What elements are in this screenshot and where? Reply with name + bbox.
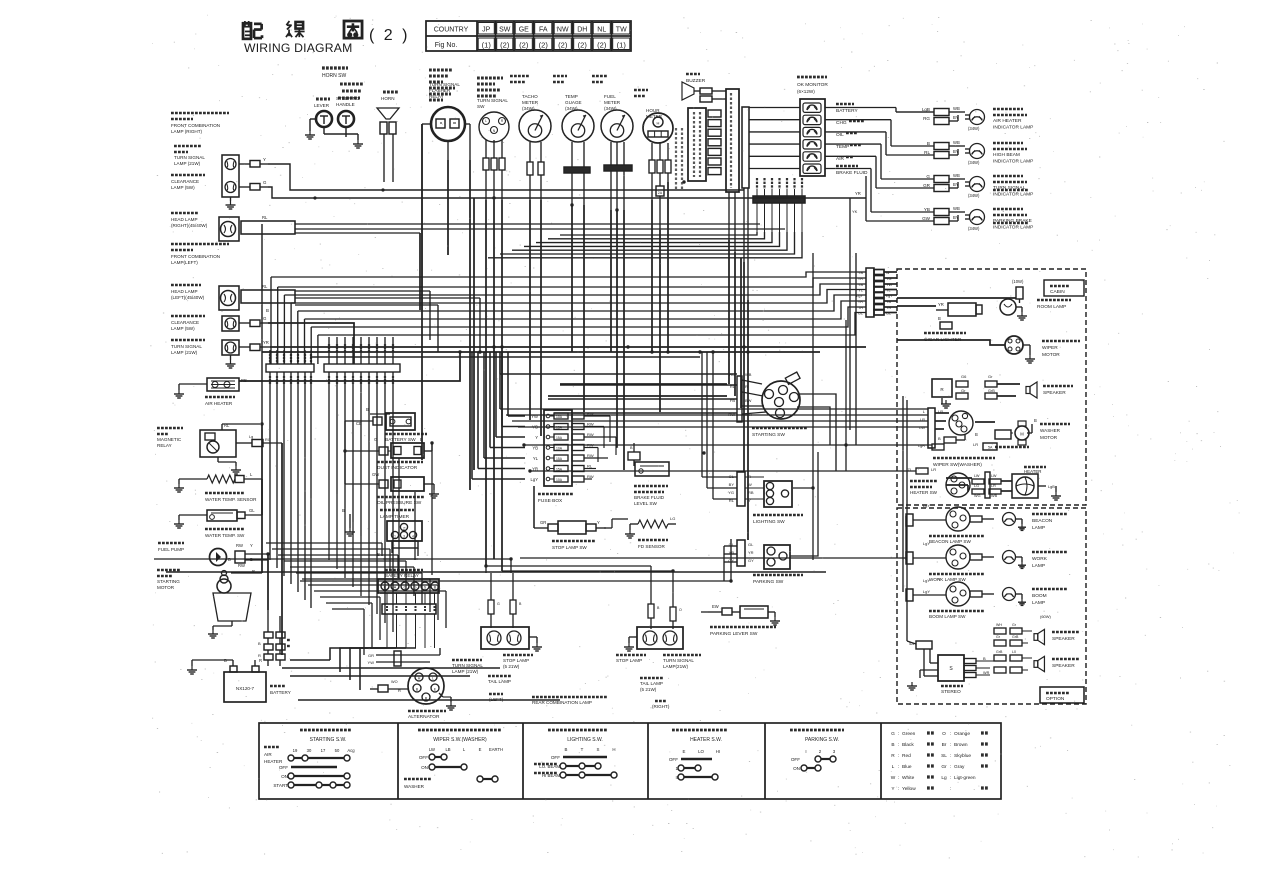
svg-text:HIGH BEAM: HIGH BEAM [993, 152, 1020, 158]
svg-text:O: O [942, 731, 946, 737]
svg-text:G: G [263, 180, 267, 185]
svg-text:LEVEL SW: LEVEL SW [634, 501, 657, 506]
svg-text:Y: Y [597, 520, 600, 525]
svg-text:LIGHTING S.W.: LIGHTING S.W. [567, 737, 603, 743]
svg-text:METER: METER [522, 100, 539, 105]
svg-text:LW: LW [974, 474, 980, 478]
svg-text:Black: Black [902, 742, 914, 748]
svg-text:WASHER: WASHER [404, 784, 425, 789]
svg-text:STOP LAMP: STOP LAMP [616, 658, 642, 663]
svg-text:MOTOR: MOTOR [1042, 352, 1060, 358]
svg-text:G: G [374, 437, 377, 442]
svg-text:LAMP: LAMP [1032, 563, 1045, 569]
svg-text:HORN SW: HORN SW [322, 73, 346, 79]
svg-text:(10W): (10W) [1012, 279, 1024, 284]
svg-text:BY: BY [953, 149, 959, 154]
svg-text::: : [950, 776, 951, 781]
svg-text:WIPER: WIPER [1042, 345, 1058, 351]
svg-text:FLASHER: FLASHER [429, 88, 451, 93]
svg-text:(2): (2) [578, 41, 588, 50]
svg-text:BRAKE FLUID: BRAKE FLUID [634, 495, 665, 500]
svg-text:METER: METER [604, 100, 621, 105]
svg-text:STARTING: STARTING [157, 579, 180, 584]
svg-text:TURN SIGNAL: TURN SIGNAL [429, 82, 460, 87]
svg-text:Y: Y [938, 577, 941, 582]
svg-text:(RIGHT)(45/40W): (RIGHT)(45/40W) [171, 223, 208, 228]
svg-text:RL: RL [262, 215, 268, 220]
svg-text:Y: Y [250, 543, 253, 548]
svg-text:WO: WO [391, 680, 398, 684]
svg-text:HEATER: HEATER [264, 759, 283, 764]
svg-text:G: G [263, 316, 267, 321]
svg-text:(34W): (34W) [968, 226, 980, 231]
svg-text:STEERING: STEERING [336, 96, 360, 101]
svg-text:FUEL PUMP: FUEL PUMP [158, 547, 184, 552]
svg-text:STARTING S.W.: STARTING S.W. [310, 737, 347, 743]
svg-text:G6: G6 [961, 374, 967, 379]
svg-text:SPEAKER: SPEAKER [1043, 390, 1066, 396]
svg-text:TAIL LAMP: TAIL LAMP [488, 679, 511, 684]
svg-text:Skyblue: Skyblue [954, 753, 971, 759]
svg-text:L: L [432, 677, 434, 681]
svg-text:OFF: OFF [279, 765, 288, 770]
svg-text:(LEFT)(45/40W): (LEFT)(45/40W) [171, 295, 205, 300]
svg-text:BOOM LAMP SW: BOOM LAMP SW [929, 614, 966, 619]
svg-text:B: B [366, 407, 369, 412]
svg-text:WB: WB [953, 173, 960, 178]
svg-text:(34W): (34W) [968, 193, 980, 198]
svg-text:LgY: LgY [923, 503, 930, 508]
svg-text:LgY: LgY [923, 589, 930, 594]
svg-text:Lg: Lg [941, 775, 947, 781]
svg-text:TW: TW [616, 27, 627, 34]
svg-text:LW: LW [429, 747, 435, 752]
svg-text:L: L [485, 119, 487, 123]
svg-text:WIPER SW(WASHER): WIPER SW(WASHER) [933, 462, 982, 468]
svg-text:RB: RB [748, 490, 754, 495]
svg-text::: : [950, 765, 951, 770]
svg-text:LAMP(LEFT): LAMP(LEFT) [171, 260, 198, 265]
svg-text:CHG: CHG [836, 120, 847, 126]
svg-text:GR: GR [540, 520, 546, 525]
svg-text:BY: BY [953, 115, 959, 120]
svg-text:SW: SW [499, 27, 511, 34]
svg-text:FRONT COMBINATION: FRONT COMBINATION [171, 254, 220, 259]
svg-text:AIR: AIR [264, 752, 272, 757]
svg-text:Gr: Gr [941, 764, 947, 770]
svg-text::: : [898, 743, 899, 748]
svg-text:E: E [479, 747, 482, 752]
svg-text:LR: LR [973, 442, 978, 447]
svg-text:(RIGHT): (RIGHT) [652, 704, 670, 709]
svg-text:DH: DH [577, 27, 587, 34]
svg-text:BEACON LAMP SW: BEACON LAMP SW [929, 539, 971, 544]
svg-text:OFF: OFF [551, 755, 560, 760]
svg-text:WATER TEMP. SENSOR: WATER TEMP. SENSOR [205, 497, 257, 502]
svg-text:BATTERY: BATTERY [270, 690, 291, 695]
svg-text:LR: LR [991, 484, 996, 488]
svg-text:Y: Y [535, 435, 538, 440]
svg-text:HEATER S.W.: HEATER S.W. [690, 737, 722, 743]
svg-text:BY: BY [729, 482, 735, 487]
svg-text:B: B [258, 641, 261, 646]
svg-text:(1): (1) [482, 41, 492, 50]
svg-text:LAMP (5W): LAMP (5W) [171, 326, 195, 331]
svg-text:DUST INDICATOR: DUST INDICATOR [377, 465, 418, 471]
svg-text:LR: LR [931, 467, 936, 472]
svg-text:G: G [926, 174, 930, 179]
svg-text::: : [950, 787, 951, 792]
svg-text:White: White [902, 775, 915, 781]
svg-text:LO. BEAM: LO. BEAM [539, 764, 560, 769]
svg-text:RG: RG [923, 116, 930, 121]
svg-text:2: 2 [403, 527, 405, 531]
svg-text:HANDLE: HANDLE [336, 102, 355, 107]
svg-text:GW: GW [372, 472, 379, 477]
svg-text:S: S [597, 747, 600, 752]
svg-text:GR: GR [923, 183, 931, 188]
svg-text:LAMP (21W): LAMP (21W) [452, 669, 479, 674]
svg-text::: : [898, 754, 899, 759]
svg-text:FD SENSOR: FD SENSOR [638, 544, 665, 549]
svg-text:B: B [266, 308, 269, 313]
svg-text:50: 50 [335, 748, 340, 753]
svg-text:2A: 2A [658, 191, 663, 195]
svg-text:M: M [1020, 432, 1024, 437]
svg-text:LG: LG [974, 484, 979, 488]
svg-text:WG: WG [974, 494, 981, 498]
svg-text:BUZZER: BUZZER [686, 78, 706, 84]
svg-text:GL: GL [748, 542, 754, 547]
svg-text:LW: LW [991, 474, 997, 478]
svg-text:RW: RW [587, 474, 594, 479]
svg-text:19: 19 [293, 748, 298, 753]
svg-text::: : [898, 776, 899, 781]
svg-text:LO: LO [698, 749, 704, 754]
svg-text:(34W): (34W) [968, 160, 980, 165]
svg-text:Blue: Blue [902, 764, 912, 770]
svg-text:AIR HEATER: AIR HEATER [993, 118, 1022, 124]
svg-text:ALTERNATOR: ALTERNATOR [408, 714, 440, 720]
svg-text:T: T [581, 747, 584, 752]
svg-text:GR: GR [368, 653, 374, 658]
svg-text:Gray: Gray [954, 764, 965, 770]
svg-text:(2): (2) [539, 41, 549, 50]
svg-text:INDICATOR LAMP: INDICATOR LAMP [993, 225, 1033, 231]
svg-text:BATTERY: BATTERY [836, 108, 858, 114]
svg-text:(34W): (34W) [968, 126, 980, 131]
svg-text:WR: WR [983, 671, 990, 675]
svg-text:30: 30 [307, 748, 312, 753]
svg-text:FUEL: FUEL [604, 94, 616, 99]
svg-text:STEREO: STEREO [941, 689, 961, 695]
svg-text:RW: RW [587, 453, 594, 458]
svg-text:MAGNETIC: MAGNETIC [157, 437, 182, 442]
svg-text:RW: RW [238, 563, 245, 568]
svg-text:Y: Y [263, 157, 266, 162]
svg-text:WORK: WORK [1032, 556, 1048, 562]
svg-text:SW: SW [477, 104, 485, 109]
svg-text:LG: LG [670, 516, 675, 521]
svg-text:RL: RL [262, 284, 268, 289]
svg-text:TURN SIGNAL: TURN SIGNAL [477, 98, 508, 103]
svg-text:5A: 5A [988, 446, 993, 450]
svg-text:L0: L0 [1012, 650, 1016, 654]
svg-text::: : [898, 787, 899, 792]
svg-text:GE: GE [519, 27, 529, 34]
svg-text:OPTION: OPTION [1046, 696, 1065, 702]
svg-text:Red: Red [902, 753, 911, 759]
svg-text:BOOM: BOOM [1032, 593, 1047, 599]
svg-text:LgB: LgB [922, 107, 930, 112]
svg-text:GUAGE: GUAGE [565, 100, 582, 105]
svg-text:LgY: LgY [531, 477, 539, 482]
svg-text:BY: BY [953, 182, 959, 187]
svg-text:PARKING S.W.: PARKING S.W. [805, 737, 839, 743]
svg-text:LAMP: LAMP [1032, 600, 1045, 606]
svg-text:B: B [975, 432, 978, 437]
svg-text:B: B [938, 316, 941, 321]
svg-text:LAMP (5W): LAMP (5W) [171, 185, 195, 190]
svg-text:INDICATOR LAMP: INDICATOR LAMP [993, 159, 1033, 165]
svg-text:STOP LAMP: STOP LAMP [503, 658, 529, 663]
svg-text:MOTOR: MOTOR [1040, 435, 1058, 440]
svg-text:JP: JP [482, 27, 491, 34]
svg-text::: : [950, 732, 951, 737]
svg-text:TURN SIGNAL: TURN SIGNAL [174, 155, 205, 160]
svg-text:Acg: Acg [347, 748, 355, 753]
svg-text:INDICATOR LAMP: INDICATOR LAMP [993, 125, 1033, 131]
svg-text:STOP LAMP SW: STOP LAMP SW [552, 545, 587, 550]
svg-text:TEMP: TEMP [565, 94, 578, 99]
svg-text:O: O [679, 608, 682, 612]
svg-text:Green: Green [902, 731, 916, 737]
svg-text:FRONT COMBINATION: FRONT COMBINATION [171, 123, 220, 128]
svg-text:WIRING DIAGRAM: WIRING DIAGRAM [244, 41, 352, 55]
svg-text:(2): (2) [519, 41, 529, 50]
svg-text:10A: 10A [556, 478, 563, 482]
svg-text:PARKING SW: PARKING SW [753, 579, 784, 585]
svg-text:WB: WB [953, 206, 960, 211]
svg-text:G: G [497, 602, 500, 606]
svg-text:TURN SIGNAL: TURN SIGNAL [171, 344, 202, 349]
svg-text:OFF: OFF [669, 757, 678, 762]
svg-text:LB: LB [445, 747, 450, 752]
svg-text:YB: YB [924, 207, 930, 212]
svg-text:LAMP TIMER: LAMP TIMER [380, 514, 410, 520]
svg-text:1: 1 [394, 535, 396, 539]
svg-text:HEAD LAMP: HEAD LAMP [171, 217, 198, 222]
svg-text:Ligt-green: Ligt-green [954, 775, 976, 781]
svg-text:W: W [891, 775, 896, 781]
svg-text:ON: ON [421, 765, 428, 770]
svg-text:(2): (2) [597, 41, 607, 50]
svg-text:TURN SIGNAL: TURN SIGNAL [663, 658, 694, 663]
svg-text:AIR HEATER: AIR HEATER [205, 401, 233, 406]
svg-text:WH: WH [996, 623, 1002, 627]
svg-text:YR: YR [855, 191, 861, 196]
svg-text:CABIN: CABIN [1050, 289, 1065, 295]
svg-text:EW: EW [712, 604, 719, 609]
svg-text:Lg: Lg [249, 435, 253, 439]
svg-text:GrB: GrB [1012, 635, 1019, 639]
svg-text::: : [950, 754, 951, 759]
svg-text:Gr: Gr [961, 388, 966, 393]
svg-text:B: B [891, 742, 894, 748]
svg-text:15A: 15A [556, 436, 563, 440]
svg-text:LAMP: LAMP [1032, 525, 1045, 531]
svg-text:B: B [938, 436, 941, 441]
svg-text:CLEARANCE: CLEARANCE [171, 179, 199, 184]
svg-text:(2): (2) [558, 41, 568, 50]
svg-text:SPEAKER: SPEAKER [1052, 663, 1075, 669]
svg-text:LEVER: LEVER [314, 103, 330, 108]
svg-text:NL: NL [597, 27, 606, 34]
svg-text:Orange: Orange [954, 731, 970, 737]
svg-text:Br: Br [942, 742, 947, 748]
svg-text:LgY: LgY [923, 541, 930, 546]
svg-text:10A: 10A [556, 447, 563, 451]
svg-text:HEAD LAMP: HEAD LAMP [171, 289, 198, 294]
svg-text:FA: FA [539, 27, 548, 34]
svg-text:STARTING SW: STARTING SW [752, 432, 785, 438]
svg-text:WB: WB [953, 140, 960, 145]
svg-text:I: I [805, 749, 806, 754]
svg-text:EARTH: EARTH [489, 747, 503, 752]
svg-text:H: H [612, 747, 615, 752]
svg-text:WATER TEMP. SW: WATER TEMP. SW [205, 533, 245, 538]
svg-text:YR: YR [938, 302, 944, 307]
svg-text:ROOM LAMP: ROOM LAMP [1037, 304, 1066, 310]
svg-text:RW: RW [587, 422, 594, 427]
svg-text:LIGHTING SW: LIGHTING SW [753, 519, 785, 525]
svg-text:START: START [273, 783, 288, 788]
svg-text:WIPER S.W.(WASHER): WIPER S.W.(WASHER) [433, 737, 487, 743]
svg-text:(6×12W): (6×12W) [797, 89, 815, 94]
svg-text:HI: HI [716, 749, 720, 754]
svg-text:GY: GY [748, 558, 754, 563]
svg-text:WB: WB [991, 494, 998, 498]
svg-text:(60W): (60W) [1040, 614, 1052, 619]
svg-text:3: 3 [403, 535, 405, 539]
svg-text:YL: YL [533, 456, 539, 461]
svg-text:RW: RW [587, 432, 594, 437]
svg-text:CLEARANCE: CLEARANCE [171, 320, 199, 325]
svg-text:RELAY: RELAY [429, 94, 444, 99]
svg-text:OFF: OFF [419, 755, 428, 760]
svg-text:L: L [892, 764, 895, 770]
svg-text:FUSE BOX: FUSE BOX [538, 498, 563, 504]
svg-text:(1): (1) [617, 41, 627, 50]
svg-text:(5 21W): (5 21W) [503, 664, 520, 669]
svg-text:WASHER: WASHER [1040, 428, 1061, 433]
svg-text:RL: RL [924, 150, 930, 155]
svg-text:E: E [683, 749, 686, 754]
svg-text:4: 4 [412, 535, 414, 539]
svg-text:R: R [891, 753, 895, 759]
svg-text:COUNTRY: COUNTRY [434, 27, 469, 34]
svg-text:YK: YK [852, 209, 858, 214]
svg-text:Brown: Brown [954, 742, 968, 748]
svg-text:B: B [565, 747, 568, 752]
svg-text:17: 17 [321, 748, 326, 753]
svg-text:H: H [657, 121, 660, 126]
svg-text:RELAY: RELAY [157, 443, 172, 448]
svg-text:B: B [1034, 418, 1037, 423]
svg-text:HEATER SW: HEATER SW [910, 490, 938, 495]
svg-text:H: H [418, 677, 421, 681]
svg-text:ON: ON [793, 766, 800, 771]
svg-text::: : [898, 732, 899, 737]
svg-text:(2): (2) [500, 41, 510, 50]
svg-text:NW: NW [557, 27, 569, 34]
svg-text:Fig No.: Fig No. [435, 42, 458, 49]
svg-text:HORN: HORN [381, 96, 395, 101]
svg-text:TAIL LAMP: TAIL LAMP [640, 681, 663, 686]
svg-text:YR: YR [748, 550, 754, 555]
svg-text:YW: YW [368, 660, 375, 665]
svg-text:SPEAKER: SPEAKER [1052, 636, 1075, 642]
svg-text:GrB: GrB [996, 650, 1003, 654]
svg-text:ON: ON [281, 774, 288, 779]
svg-text::: : [898, 765, 899, 770]
svg-text:B: B [927, 141, 930, 146]
svg-text:OIL: OIL [836, 132, 844, 138]
svg-text:LAMP (21W): LAMP (21W) [174, 161, 201, 166]
svg-text:LAMP (RIGHT): LAMP (RIGHT) [171, 129, 203, 134]
svg-text:OK MONITOR: OK MONITOR [797, 82, 828, 88]
svg-text:TACHO: TACHO [522, 94, 538, 99]
svg-text:YB: YB [532, 446, 538, 451]
svg-text:15A: 15A [556, 457, 563, 461]
svg-text:LAMP (21W): LAMP (21W) [171, 350, 198, 355]
svg-text:BY: BY [953, 215, 959, 220]
svg-text:NX120-7: NX120-7 [236, 686, 255, 691]
svg-text:BEACON: BEACON [1032, 518, 1053, 524]
svg-text:G: G [891, 731, 895, 737]
svg-text:HI BEAM: HI BEAM [542, 773, 560, 778]
svg-text:TEMP: TEMP [836, 144, 849, 150]
svg-text:RW: RW [236, 543, 243, 548]
svg-text:GL: GL [249, 508, 255, 513]
svg-text:LgY: LgY [923, 578, 930, 583]
svg-text:GW: GW [922, 216, 931, 221]
svg-text:RL: RL [587, 464, 593, 469]
svg-text:BRAKE FLUID: BRAKE FLUID [836, 170, 868, 176]
svg-text:WORK LAMP SW: WORK LAMP SW [929, 577, 966, 582]
svg-text:B: B [983, 656, 986, 661]
svg-text:R: R [258, 653, 261, 658]
svg-text::: : [950, 743, 951, 748]
svg-text:( 2 ): ( 2 ) [369, 27, 410, 44]
svg-text:(5 21W): (5 21W) [640, 687, 657, 692]
svg-text:WB: WB [953, 106, 960, 111]
svg-text:R: R [259, 658, 262, 663]
svg-text:CB: CB [356, 421, 362, 426]
svg-text:Yellow: Yellow [902, 786, 916, 792]
svg-text:LAMP(21W): LAMP(21W) [663, 664, 688, 669]
svg-text:MOTOR: MOTOR [157, 585, 175, 590]
svg-text:Gr: Gr [988, 374, 993, 379]
svg-text:AIR: AIR [836, 156, 845, 162]
svg-text:OFF: OFF [791, 757, 800, 762]
svg-text:SL: SL [941, 753, 947, 759]
svg-text:PARKING LEVER SW: PARKING LEVER SW [710, 631, 758, 637]
svg-text:BATTERY SW: BATTERY SW [385, 437, 416, 443]
svg-text:LgB: LgB [1048, 485, 1055, 489]
svg-text:YR: YR [263, 340, 269, 345]
svg-text:YG: YG [728, 490, 734, 495]
